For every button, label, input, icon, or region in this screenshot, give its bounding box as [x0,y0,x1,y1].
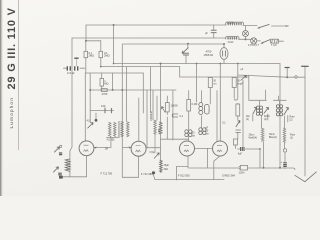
svg-text:cm: cm [192,135,195,138]
svg-text:Lumophon: Lumophon [9,97,15,128]
svg-text:110V≈: 110V≈ [239,172,246,175]
svg-text:+: + [281,160,283,164]
svg-text:30Ω: 30Ω [164,168,169,171]
svg-text:2MΩ: 2MΩ [104,54,110,58]
svg-text:10000cm: 10000cm [150,111,153,121]
svg-text:1000: 1000 [158,128,161,134]
svg-text:1M: 1M [105,148,108,151]
svg-text:4µF: 4µF [238,153,243,156]
svg-text:29 G III. 110 V: 29 G III. 110 V [6,7,18,89]
svg-text:(1): (1) [290,136,293,139]
svg-text:F 712 280: F 712 280 [141,172,153,176]
svg-text:MΩ: MΩ [104,82,108,86]
svg-text:4,5 352: 4,5 352 [107,139,116,142]
svg-text:0,5µF: 0,5µF [150,151,157,154]
svg-text:cm: cm [206,133,209,136]
svg-text:0,1M: 0,1M [192,102,198,106]
svg-text:(2): (2) [290,118,293,121]
svg-text:25µF: 25µF [164,164,170,167]
svg-text:F 912 500: F 912 500 [178,173,190,177]
svg-text:0,15 A: 0,15 A [227,22,234,25]
svg-text:1505-60: 1505-60 [204,53,214,57]
svg-text:0,75-0,5 T: 0,75-0,5 T [248,44,259,47]
svg-text:2MΩ: 2MΩ [89,54,95,58]
svg-text:(4): (4) [264,118,267,121]
svg-text:10000: 10000 [171,104,179,108]
svg-text:4µF: 4µF [234,99,239,102]
svg-text:4×1Ω: 4×1Ω [228,41,234,44]
svg-text:cm: cm [213,82,216,85]
svg-text:S RES 364: S RES 364 [222,174,235,178]
svg-text:Blau(2): Blau(2) [269,136,277,139]
svg-text:4700: 4700 [206,50,212,54]
svg-text:F 712 780: F 712 780 [101,172,113,176]
svg-text:Weiß(4): Weiß(4) [249,136,258,139]
svg-text:0,1: 0,1 [180,114,184,118]
svg-text:100: 100 [101,104,106,108]
svg-text:2×2 µF: 2×2 µF [67,72,75,75]
svg-text:T 0,8: T 0,8 [271,44,277,47]
svg-text:(4): (4) [246,118,249,121]
svg-text:4700: 4700 [102,92,108,96]
